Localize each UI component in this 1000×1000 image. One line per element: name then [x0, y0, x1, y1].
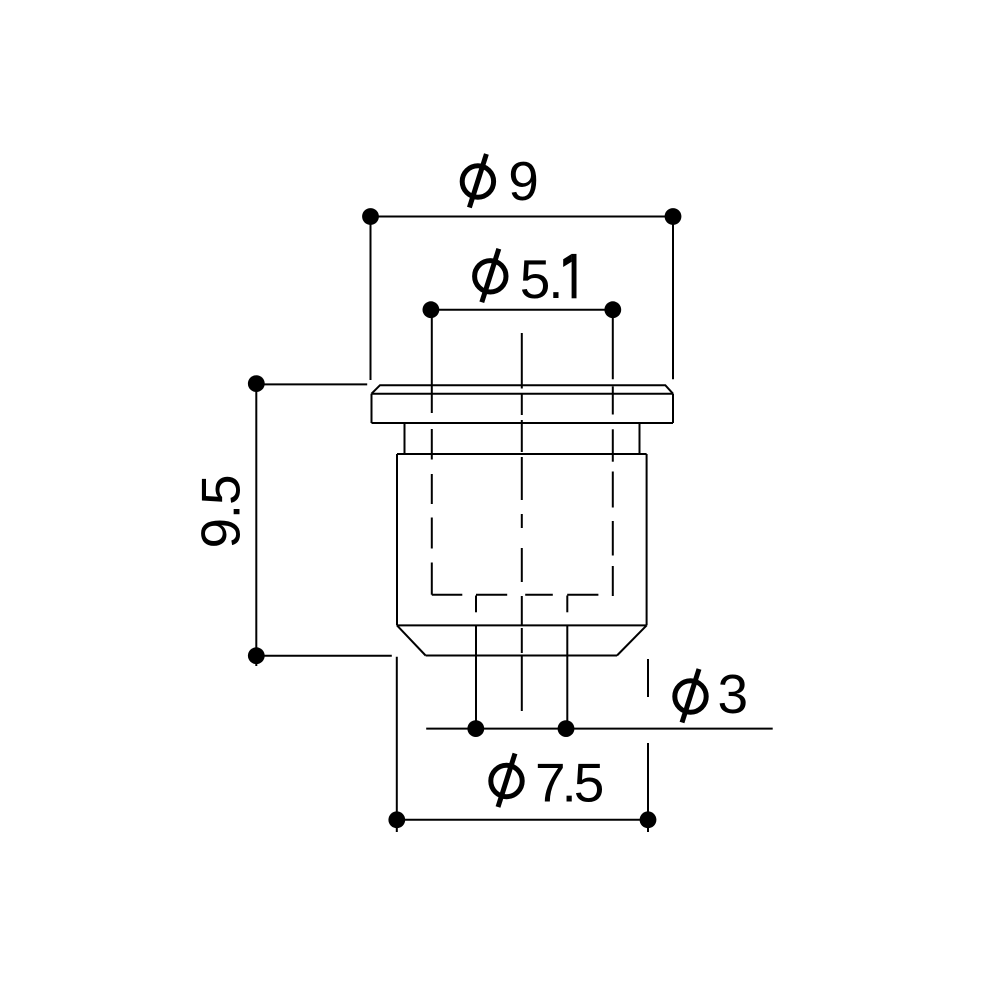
dimension 9.5 bottom extension — [256, 655, 392, 657]
dimension phi 5.1 line — [431, 309, 613, 311]
body top edge — [397, 453, 647, 455]
body left edge — [396, 454, 398, 625]
dimension phi 7.5 right extension upper — [647, 659, 649, 697]
dimension phi 9 right dot — [665, 208, 682, 225]
dimension 9.5 line — [255, 384, 257, 666]
dimension 9.5 bottom dot — [248, 647, 265, 664]
dimension phi 7.5 left dot — [388, 811, 405, 828]
center line — [521, 333, 523, 711]
dimension phi 9 left dot — [362, 208, 379, 225]
hidden hole right side (phi 5.1) — [612, 310, 614, 596]
dimension phi 3 line — [426, 728, 773, 730]
body right edge — [646, 454, 648, 625]
dimension phi 7.5 right extension lower — [647, 743, 649, 832]
svg-text:.: . — [190, 504, 252, 519]
dimension phi 9 right extension — [672, 217, 674, 380]
dimension phi 5.1 right dot — [604, 301, 621, 318]
svg-text:5: 5 — [190, 474, 252, 505]
flange right edge — [672, 394, 674, 423]
value label 7.5 — [535, 752, 604, 814]
dimension 9.5 top dot — [248, 375, 265, 392]
dimension phi 7.5 left extension — [396, 657, 398, 832]
svg-text:9: 9 — [508, 150, 539, 212]
body right bottom chamfer — [617, 625, 647, 655]
dimension phi 7.5 line — [397, 819, 648, 821]
phi symbol for 3 — [675, 669, 706, 723]
dimension phi 3 left extension — [475, 625, 477, 736]
flange front top edge — [372, 393, 674, 395]
neck right edge — [639, 423, 641, 454]
flange bottom edge — [372, 422, 674, 424]
value label 9.5 (rotated) — [190, 474, 252, 548]
svg-text:5: 5 — [574, 752, 605, 814]
body chamfer start edge — [397, 624, 647, 626]
dimension phi 3 left dot — [467, 720, 484, 737]
body left bottom chamfer — [397, 625, 426, 655]
body bottom edge — [426, 655, 617, 657]
flange top chamfer edge — [372, 385, 674, 394]
hidden hole bottom (phi 5.1) — [432, 594, 599, 596]
hidden hole left side (phi 3) — [475, 596, 477, 613]
value label 5.1 — [520, 248, 577, 310]
neck left edge — [404, 423, 406, 454]
dimension phi 3 right dot — [558, 720, 575, 737]
svg-text:.: . — [548, 248, 563, 310]
phi symbol for 7.5 — [491, 754, 522, 808]
dimension phi 9 line — [371, 216, 674, 218]
phi symbol for 9 — [462, 154, 493, 208]
flange left edge — [371, 394, 373, 423]
dimension phi 9 left extension — [370, 217, 372, 381]
dimension phi 7.5 right dot — [640, 811, 657, 828]
svg-text:3: 3 — [718, 663, 749, 725]
svg-text:5: 5 — [520, 248, 551, 310]
hidden hole right side (phi 3) — [566, 596, 568, 613]
dimension phi 3 right extension — [566, 625, 568, 736]
dimension 9.5 top extension — [256, 383, 367, 385]
dimension phi 5.1 left dot — [423, 301, 440, 318]
hidden hole left side (phi 5.1) — [431, 310, 433, 595]
phi symbol for 5.1 — [475, 249, 506, 302]
svg-text:9: 9 — [190, 518, 252, 549]
